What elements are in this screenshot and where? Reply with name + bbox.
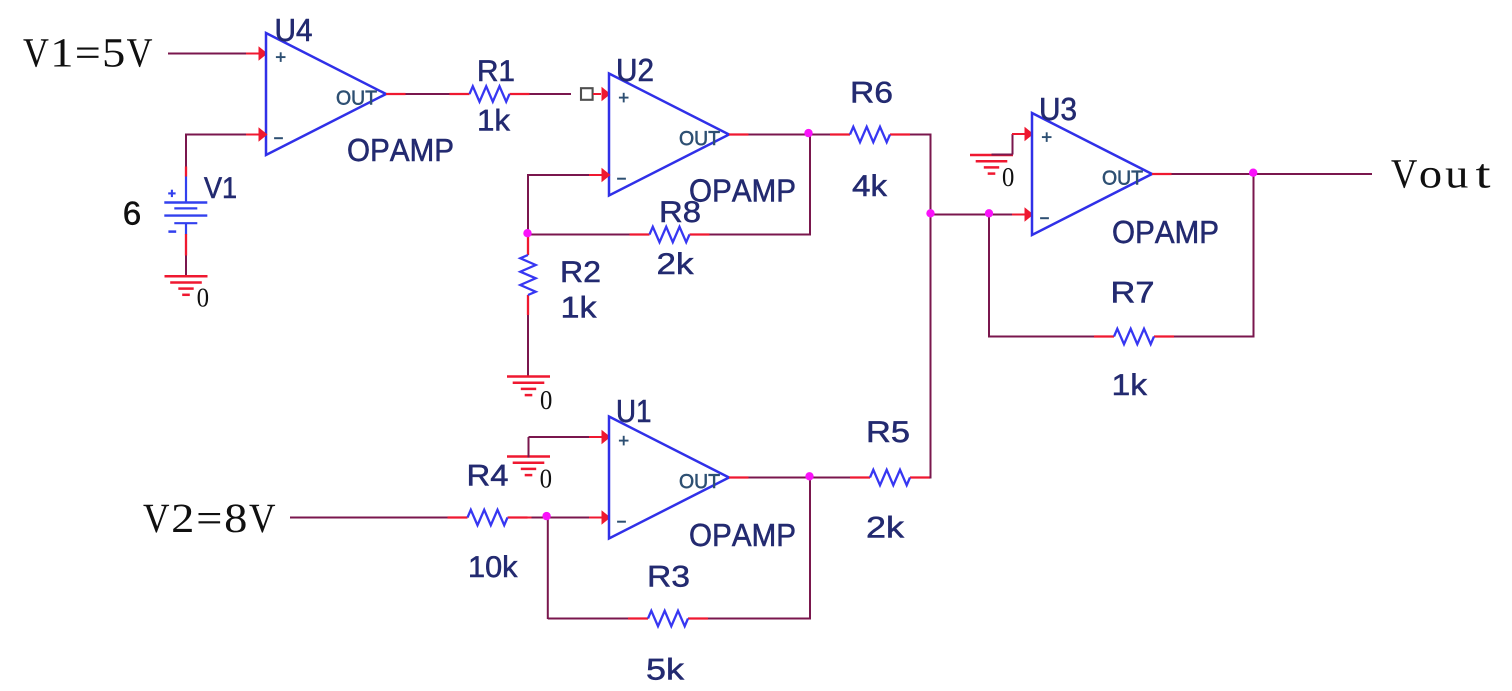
junction R2/R8 node: [523, 229, 531, 237]
net 0 label (V1 ground): [198, 289, 209, 307]
ground (R2): [507, 377, 550, 396]
resistor R8: [630, 227, 710, 242]
value 1k (R2): [563, 296, 596, 318]
value 1k (R1): [479, 109, 510, 131]
op-amp U1: [609, 417, 729, 539]
wire battery to ground: [185, 234, 187, 277]
resistor R1: [450, 86, 530, 101]
junction U1 output: [805, 472, 813, 480]
net label V1=5V: [23, 39, 152, 67]
wire R8 to R2 node: [528, 234, 630, 236]
value 2k (R8): [658, 252, 693, 274]
junction U3 - input node: [985, 209, 993, 217]
net 0 label (U3 ground): [1003, 168, 1014, 186]
label R1: [479, 60, 513, 81]
label R5: [869, 421, 909, 442]
resistor R2: [520, 235, 535, 315]
label R3: [650, 566, 689, 587]
label U1: [618, 400, 650, 422]
wire U2 output to node: [729, 133, 809, 135]
label OPAMP (U2): [690, 179, 794, 202]
label R2: [563, 261, 600, 282]
wire U3 output to Vout: [1254, 173, 1373, 175]
resistor R7: [1094, 329, 1174, 344]
junction U2 output: [804, 129, 812, 137]
wire R7 loop: [989, 215, 1094, 338]
value 2k (R5): [868, 516, 904, 538]
wire summing node to U3 - input: [931, 207, 1034, 222]
resistor R6: [830, 127, 910, 142]
label OPAMP (U1): [690, 524, 794, 547]
wire R1 to connector: [530, 93, 572, 95]
label V1 (battery): [204, 177, 236, 198]
wire R3 to U1 output: [708, 478, 811, 619]
wire U4 output to R1: [386, 93, 450, 95]
resistor R4: [448, 510, 528, 525]
wire R2 to ground: [527, 315, 529, 378]
wire U1 + input to ground: [529, 430, 611, 458]
wire R7 to U3 output: [1174, 174, 1255, 337]
label OPAMP (U3): [1113, 221, 1217, 244]
net label V2=8V: [143, 504, 275, 532]
value 5k (R3): [647, 658, 684, 680]
wire R4 to U1 - input: [528, 510, 611, 525]
junction U3 output: [1249, 169, 1257, 177]
junction R4/R3 node: [542, 512, 550, 520]
wire U4 - input from battery: [185, 127, 268, 176]
wire R6 to summing node: [910, 134, 932, 215]
op-amp U4: [266, 33, 386, 155]
op-amp U2: [609, 74, 729, 196]
value 4k (R6): [853, 174, 887, 196]
ground (U1 + input): [507, 457, 550, 476]
wire U2 - input: [528, 168, 611, 235]
op-amp U3: [1032, 113, 1152, 235]
wire connector to U2 + input: [593, 87, 611, 102]
value 6 (battery): [125, 202, 140, 225]
battery V1 (6V source): [164, 176, 207, 234]
wire feedback node to R8: [710, 135, 811, 236]
wire node to R6: [809, 134, 831, 136]
wire R3 loop: [548, 518, 628, 620]
connector square (U2 + input): [581, 88, 593, 100]
wire R5 to summing node: [930, 214, 932, 479]
junction summing node: [926, 209, 934, 217]
ground (V1): [165, 276, 208, 295]
net 0 label (R2 ground): [541, 391, 552, 409]
ground (U3 + input): [970, 155, 1013, 174]
label U4: [277, 19, 312, 41]
wire U1 output to R5: [810, 477, 850, 479]
value 1k (R7): [1114, 373, 1147, 395]
value 10k (R4): [470, 555, 517, 577]
label U2: [618, 59, 652, 82]
wire V2=8V to R4: [290, 517, 448, 519]
label OPAMP (U4): [348, 139, 452, 162]
wire U3 output: [1152, 173, 1254, 175]
wire V1=5V to U4 + input: [168, 46, 268, 61]
wire U3 + input to ground: [992, 127, 1034, 155]
label R4: [469, 465, 507, 486]
label U3: [1041, 98, 1075, 121]
label R6: [853, 82, 892, 103]
resistor R3: [628, 611, 708, 626]
label R8: [662, 201, 700, 222]
net label Vout: [1391, 160, 1490, 188]
wire U1 output: [729, 476, 810, 478]
net 0 label (U1 ground): [541, 470, 552, 488]
resistor R5: [850, 470, 930, 485]
label R7: [1113, 282, 1153, 303]
